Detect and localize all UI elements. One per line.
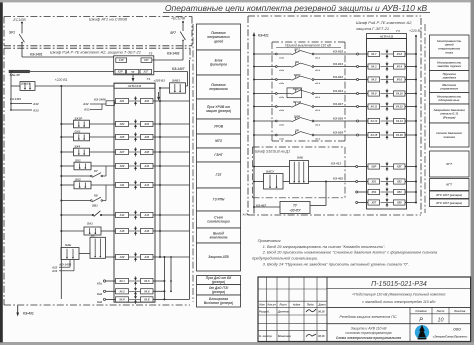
svg-text:А08: А08: [143, 150, 149, 154]
title block document number П-15015-021-Р34: [327, 281, 471, 288]
svg-text:SВ1: SВ1: [92, 203, 98, 207]
svg-text:Изм: Изм: [259, 303, 264, 307]
title block drawing name: [336, 326, 401, 340]
svg-text:КЭ-912: КЭ-912: [333, 75, 343, 79]
svg-text:А05: А05: [119, 135, 125, 139]
terminal circle Кнб: [97, 290, 116, 296]
wire bus to GХ1: [60, 136, 73, 138]
terminal X2 right box: [140, 69, 152, 74]
right strip lower terminal box Х52: [394, 179, 406, 184]
svg-text:Листов: Листов: [453, 309, 465, 313]
svg-text:Привод выключателя 110 кВ: Привод выключателя 110 кВ: [285, 43, 332, 47]
right strip contact Х4.7: [381, 49, 394, 58]
right strip terminal Х4.12: [394, 104, 406, 109]
svg-text:Х58: Х58: [396, 201, 402, 205]
svg-text:+ЕС1/ЛВ: +ЕС1/ЛВ: [171, 17, 186, 21]
svg-text:Лист: Лист: [278, 303, 287, 307]
svg-text:А11: А11: [119, 183, 125, 187]
relay SХ1Р: [74, 116, 90, 127]
annotation cell Блок: [197, 50, 241, 75]
wire contact SF1 to terminal: [314, 49, 368, 55]
right strip contact Х4.13: [381, 116, 394, 125]
svg-text:А32: А32: [32, 102, 39, 106]
right strip terminal Х4.9: [368, 91, 380, 96]
svg-text:А33: А33: [51, 269, 58, 273]
annotation cell Съем: [197, 211, 241, 228]
svg-text:Х51: Х51: [370, 180, 376, 184]
right strip terminal Х4.13: [368, 118, 380, 123]
drive contact SК: [275, 60, 320, 72]
svg-text:Х4.7: Х4.7: [370, 52, 377, 56]
svg-text:А07: А07: [119, 150, 125, 154]
title block left grid: [258, 277, 327, 342]
cable designation КЭ-401 exit: [16, 306, 34, 317]
svg-text:№док: №док: [293, 303, 301, 307]
svg-text:защит (резерв): защит (резерв): [206, 109, 231, 113]
svg-text:Х1Г: Х1Г: [143, 58, 149, 62]
right strip terminal Х4.10: [394, 91, 406, 96]
annotation cell right КГТ: [430, 151, 470, 177]
svg-text:SХ4: SХ4: [75, 144, 81, 148]
annotation cell ГЗНТ: [197, 148, 241, 162]
svg-text:Защита и АУВ 110 кВ: Защита и АУВ 110 кВ: [351, 326, 388, 330]
node -ЕС1/ЛВ left: [12, 18, 26, 24]
svg-text:А1ТН-011: А1ТН-011: [127, 84, 142, 88]
vertical line at cabinet right: [189, 60, 191, 299]
svg-text:Х4.6: Х4.6: [143, 290, 150, 294]
svg-text:Х4.2: Х4.2: [118, 290, 125, 294]
junction +220V left bus: [60, 85, 62, 87]
strip row terminal А03: [116, 121, 129, 126]
svg-text:МТЗ: МТЗ: [215, 139, 222, 143]
wire right strip lower row Х53: [405, 191, 417, 193]
annotation cell Вывод: [197, 228, 241, 243]
strip row terminal А13: [116, 212, 129, 217]
wire filter left drop: [11, 72, 13, 111]
svg-text:Защита АТВ: Защита АТВ: [208, 255, 229, 259]
dash-dot separator before right annotation column: [424, 24, 426, 213]
right strip lower terminal box Х54: [394, 189, 406, 194]
terminal strip right body: [367, 39, 407, 210]
wire SХ4 to strip: [90, 151, 116, 153]
right strip terminal Х4.15: [368, 132, 380, 137]
svg-text:Р: Р: [419, 317, 423, 323]
strip row terminal А11: [116, 182, 129, 187]
svg-text:Н. контр.: Н. контр.: [259, 334, 273, 338]
cabinet frame Шкаф РзА Р-7Е комплект А2 защита Т-ЗЕТ-21: [4, 48, 190, 305]
wire contact SQР to terminal: [314, 116, 368, 122]
svg-text:Х54: Х54: [396, 190, 402, 194]
wire contact SP to terminal: [314, 130, 368, 136]
right strip lower terminal Х5Р: [356, 166, 368, 168]
terminal strip А1ТН-011 body: [114, 83, 155, 302]
svg-text:Х4.5: Х4.5: [370, 78, 377, 82]
scan edge right bar: [471, 0, 474, 345]
svg-text:тока: тока: [445, 50, 453, 54]
annotation cell Пуск УРОВ от: [197, 99, 241, 119]
strip row contact at А29: [129, 252, 142, 261]
svg-text:Разраб.: Разраб.: [259, 310, 270, 314]
strip row terminal А29: [116, 254, 129, 259]
terminal X1 left box: [116, 58, 127, 63]
arrow feed down to terminal strip: [132, 74, 135, 82]
strip row terminal Х4.Р: [116, 297, 129, 302]
svg-text:цепей: цепей: [214, 39, 223, 43]
right strip terminal Х4.6: [394, 77, 406, 82]
svg-text:Шкаф РзА Р-7Е комплект А2,: Шкаф РзА Р-7Е комплект А2,: [356, 20, 412, 25]
svg-text:элегаза: элегаза: [443, 135, 455, 139]
wire bus to contact SК: [253, 66, 275, 68]
cabinet frame Шкаф АТ1 на С300В: [4, 17, 192, 46]
contact block БК: [90, 233, 106, 258]
svg-text:Кол.уч: Кол.уч: [268, 303, 277, 307]
switch SВ1: [60, 203, 115, 216]
svg-text:Г1: Г1: [147, 77, 151, 81]
svg-text:КЭ-913: КЭ-913: [333, 62, 343, 66]
wire SХ2 to strip: [91, 184, 116, 186]
svg-text:х1Lб: х1Lб: [314, 123, 321, 126]
wire А33 joining: [83, 104, 102, 112]
svg-text:управление: управление: [439, 87, 458, 91]
terminal X1 right box: [141, 58, 152, 63]
svg-text:КЭ-915: КЭ-915: [333, 49, 343, 53]
vertical bus right of strip: [159, 88, 161, 257]
strip row contact at А03: [129, 119, 142, 128]
svg-text:(резерв): (резерв): [212, 290, 225, 294]
right strip lower terminal box Х5Р: [368, 164, 380, 169]
svg-text:пр: пр: [131, 71, 135, 74]
svg-text:SА1: SА1: [87, 221, 93, 225]
company logo ЭнергоСвязьПроект: [415, 325, 468, 340]
svg-text:А13: А13: [119, 213, 125, 217]
svg-text:КЭ-914: КЭ-914: [333, 89, 343, 93]
svg-text:А02: А02: [143, 99, 149, 103]
svg-text:КЭ-401: КЭ-401: [23, 312, 34, 316]
annotation cell right Пружина: [430, 71, 470, 82]
cabinet frame Шкаф S1ESLВ на Д1: [253, 147, 346, 198]
right strip terminal Х4.3: [368, 64, 380, 69]
wire X101 row: [11, 85, 115, 87]
svg-text:ГЗНТ: ГЗНТ: [214, 153, 223, 157]
wire row А09 to bus: [153, 165, 190, 167]
svg-text:Демчев: Демчев: [277, 310, 289, 314]
title block row Н.контр: [259, 334, 325, 338]
right strip lower contact Х5Р: [381, 162, 394, 171]
annotation cell Блокировка: [197, 295, 241, 307]
svg-text:SF7: SF7: [170, 31, 176, 35]
relay SАСУ: [264, 170, 284, 189]
svg-text:GХ1: GХ1: [75, 129, 81, 133]
relay SХ2: [74, 177, 91, 188]
right strip terminal Х4.5: [368, 77, 380, 82]
wire bus to SХ2: [60, 184, 74, 186]
strip row terminal А04: [141, 121, 154, 126]
svg-text:«ЭнергоСвязьПроект»: «ЭнергоСвязьПроект»: [433, 334, 468, 338]
wire bus to SХ4: [60, 151, 73, 153]
strip row contact at А13: [129, 210, 142, 219]
wire stub А32 lower: [51, 260, 70, 270]
wire contact SF1Д to terminal: [314, 102, 368, 108]
drive contact SP: [275, 128, 320, 140]
strip row contact at А05: [129, 132, 142, 141]
svg-text:х1ба: х1ба: [278, 82, 285, 85]
strip row terminal А02: [141, 98, 154, 103]
svg-text:Вкл/откл (резерв): Вкл/откл (резерв): [204, 301, 233, 305]
svg-text:КГС НКТ (резерв): КГС НКТ (резерв): [436, 201, 462, 205]
strip row contact at А01: [129, 96, 142, 105]
svg-text:обогрева вык.: обогрева вык.: [438, 98, 460, 102]
right strip terminal Х4.7: [368, 51, 380, 56]
svg-text:Шкаф АТ1 на С300В: Шкаф АТ1 на С300В: [89, 17, 127, 22]
svg-text:БК: БК: [91, 233, 95, 237]
svg-text:комплекта: комплекта: [210, 236, 228, 240]
drive contact SQП: [275, 73, 320, 85]
drive contact SF1: [275, 47, 320, 59]
svg-text:Х4.9: Х4.9: [370, 92, 377, 96]
svg-text:П-15015-021-Р34: П-15015-021-Р34: [371, 281, 427, 288]
svg-text:А30: А30: [143, 255, 149, 259]
terminal X2 left box: [115, 69, 125, 74]
annotation cell ГЗ РПН: [197, 188, 241, 211]
svg-text:силового трансформатора: силового трансформатора: [345, 331, 391, 335]
svg-text:SХ2: SХ2: [75, 177, 81, 181]
svg-text:«Подстанция 110 кВ (Ивантеевка: «Подстанция 110 кВ (Ивантеевка) Угольный…: [352, 293, 446, 297]
right strip lower contact Х51: [381, 177, 394, 186]
svg-text:А14: А14: [143, 213, 149, 217]
svg-text:Кнб: Кнб: [97, 292, 102, 296]
strip row terminal Х4.1: [116, 278, 129, 283]
svg-text:х1Lб: х1Lб: [314, 82, 321, 85]
annotation cell right Неисправность: [430, 58, 470, 71]
breaker SF1: [9, 31, 24, 44]
svg-text:х1Lб: х1Lб: [314, 56, 321, 59]
strip row contact at Х4.1: [129, 276, 142, 285]
wire right strip row Х4.7: [405, 53, 417, 55]
annotation cell ГЗТ: [197, 162, 241, 188]
annotation cell Питание: [197, 24, 241, 50]
svg-text:Х4.16: Х4.16: [395, 133, 403, 137]
svg-text:2. Вход 20 присвоить наименова: 2. Вход 20 присвоить наименование "Сниже…: [262, 250, 438, 255]
strip row terminal А07: [116, 149, 129, 154]
svg-text:-ЕС1/ЛВ: -ЕС1/ЛВ: [12, 18, 26, 22]
svg-text:А06: А06: [143, 135, 149, 139]
left +220V bus vertical: [60, 86, 62, 299]
annotation cell УРОВ: [197, 119, 241, 134]
svg-text:х1ба: х1ба: [278, 69, 285, 72]
svg-text:КЭ-917: КЭ-917: [333, 102, 343, 106]
relay SХ1: [74, 158, 91, 169]
svg-text:терминала: терминала: [209, 87, 227, 91]
notes Примечания: [252, 238, 438, 266]
contact К7: [60, 166, 106, 177]
svg-text:А29: А29: [119, 255, 125, 259]
wire КЭ-413: [309, 162, 356, 167]
svg-text:КЭ-1402: КЭ-1402: [167, 52, 180, 56]
annotation cell right КГС НКТ (резерв): [430, 199, 470, 207]
drive contact SQС1: [275, 87, 320, 99]
strip row terminal Х4.6: [141, 278, 154, 283]
wire SХ1 to strip: [91, 165, 116, 167]
svg-text:06.16: 06.16: [318, 310, 325, 314]
svg-text:А04: А04: [143, 122, 149, 126]
svg-text:А1ТН-011: А1ТН-011: [379, 34, 394, 38]
wire right strip lower row Х5Р: [405, 166, 417, 168]
wire SF7 down to terminal X1 right: [152, 40, 183, 60]
svg-text:Релейная защита элементов ПС.: Релейная защита элементов ПС.: [340, 315, 398, 319]
wire bus to contact SQП: [253, 79, 275, 81]
svg-text:Х2Р: Х2Р: [117, 70, 123, 74]
wire row Х4.Р to bus: [153, 298, 164, 300]
svg-text:К7: К7: [94, 169, 98, 173]
right strip contact Х4.5: [381, 75, 394, 84]
relay SАБ right: [290, 155, 309, 183]
right strip lower terminal box Х5Г: [394, 164, 406, 169]
breaker SF7: [170, 31, 185, 41]
svg-text:SF1: SF1: [294, 47, 300, 51]
annotation cell right Неисправность: [430, 93, 470, 105]
wire bus to contact SF1: [253, 53, 275, 55]
wire right strip row Х4.15: [405, 134, 417, 136]
right strip terminal Х4.11: [368, 104, 380, 109]
wire from -ЕС1/ЛВ to SF1: [21, 23, 23, 34]
terminal circle К7а: [97, 280, 116, 286]
svg-text:А01: А01: [119, 99, 125, 103]
annotation cell Питание: [197, 75, 241, 99]
strip row terminal А12: [141, 182, 154, 187]
switch SА1: [60, 221, 115, 235]
svg-text:Х5Г: Х5Г: [396, 165, 402, 169]
svg-text:УРОВ: УРОВ: [214, 125, 224, 129]
svg-text:Х52: Х52: [396, 180, 402, 184]
wire filter to X2 terminals: [30, 71, 114, 73]
strip row terminal А01: [116, 98, 129, 103]
svg-text:Х4.13: Х4.13: [369, 119, 377, 123]
filter device box Г2: [114, 52, 154, 75]
svg-text:Схема электрическая принципиал: Схема электрическая принципиальная: [336, 336, 401, 340]
strip row terminal А15: [116, 228, 129, 233]
surge filter block SAB XP hatched: [9, 70, 30, 77]
wire GХ1 to strip: [90, 136, 116, 138]
svg-text:КЭ-421: КЭ-421: [258, 34, 269, 38]
svg-text:К8: К8: [94, 194, 98, 198]
svg-text:К7а: К7а: [97, 282, 102, 286]
svg-text:Х4.Р: Х4.Р: [118, 298, 125, 302]
wire row А07 to bus: [153, 151, 190, 153]
right strip terminal Х4.8: [394, 51, 406, 56]
svg-text:ГЗ РПН: ГЗ РПН: [213, 198, 225, 202]
scan edge bottom strip: [0, 342, 474, 345]
svg-text:х1ба: х1ба: [278, 137, 285, 140]
relay SХ4: [74, 144, 90, 155]
svg-text:Лист: Лист: [436, 309, 445, 313]
auxiliary relay SX101: [20, 81, 35, 90]
svg-text:КЭ-402: КЭ-402: [333, 176, 343, 180]
svg-text:Х4.14: Х4.14: [395, 119, 403, 123]
right strip terminal Х4.4: [394, 64, 406, 69]
title block frame: [258, 277, 471, 342]
svg-text:Х4.11: Х4.11: [369, 105, 377, 109]
wire contact SQС1 to terminal: [314, 89, 368, 95]
svg-text:А15: А15: [119, 229, 125, 233]
svg-text:Х2Г: Х2Г: [142, 70, 148, 74]
wire row А11 to bus: [153, 184, 190, 186]
svg-text:А09: А09: [119, 164, 125, 168]
strip row terminal А05: [116, 134, 129, 139]
strip row terminal А14: [141, 212, 154, 217]
right strip lower contact Х57: [381, 198, 394, 207]
terminal X2 middle box: [127, 69, 139, 74]
svg-text:А10: А10: [143, 164, 149, 168]
strip row terminal А08: [141, 149, 154, 154]
strip row contact at А11: [129, 180, 142, 189]
drive contact SQР: [275, 114, 320, 126]
svg-text:+220 В1: +220 В1: [55, 78, 68, 82]
svg-text:Шкаф S1ЕSLВ на Д1: Шкаф S1ЕSLВ на Д1: [255, 150, 290, 154]
svg-text:06.16: 06.16: [318, 334, 325, 338]
wire right strip row Х4.5: [405, 79, 417, 81]
annotation cell right КГС НКТ (резерв): [430, 191, 470, 199]
annotation cell right Низкое давление: [430, 123, 470, 147]
annotation cell Пуск ДгО от БК: [197, 276, 241, 285]
drawing title: [163, 3, 430, 13]
annotation cell МТЗ: [197, 134, 241, 148]
strip row terminal А30: [141, 254, 154, 259]
right strip lower terminal box Х58: [394, 200, 406, 205]
svg-text:SF1: SF1: [9, 31, 15, 35]
right strip contact Х4.15: [381, 130, 394, 139]
annotation cell right Неисправность: [430, 35, 470, 58]
strip row terminal Х4.Е: [141, 297, 154, 302]
wire right strip row Х4.11: [405, 106, 417, 108]
svg-text:Х53: Х53: [370, 190, 376, 194]
svg-text:А12: А12: [143, 183, 149, 187]
svg-text:10: 10: [438, 317, 444, 323]
svg-text:А33: А33: [83, 108, 90, 112]
svg-text:Х4.6: Х4.6: [143, 279, 150, 283]
terminal strip А1ТН-011 header: [114, 77, 155, 88]
svg-text:КЭ-1403: КЭ-1403: [10, 97, 21, 101]
wire row А13 to bus: [153, 214, 190, 216]
svg-text:х1Lб: х1Lб: [314, 69, 321, 72]
svg-text:Примечания: Примечания: [258, 238, 282, 243]
svg-text:КЭ-1407: КЭ-1407: [172, 67, 185, 71]
svg-text:Х4.10: Х4.10: [395, 92, 403, 96]
vertical collector bus lower: [163, 257, 165, 299]
svg-text:Х4.6: Х4.6: [396, 78, 403, 82]
wire bus to SАСУ: [253, 181, 264, 183]
right strip lower terminal Х53: [356, 191, 368, 193]
strip row contact at А15: [129, 226, 142, 235]
annotation cell right Аварийное давление: [430, 104, 470, 123]
strip row contact at Х4.2: [129, 287, 142, 296]
svg-text:+220 В1: +220 В1: [409, 29, 422, 33]
annotation cell right КГТ: [430, 179, 470, 191]
right strip contact Х4.9: [381, 89, 394, 98]
svg-text:х1Lб: х1Lб: [314, 137, 321, 140]
wire right strip lower row Х57: [405, 202, 417, 204]
svg-text:А П: А П: [242, 213, 249, 217]
right strip terminal Х4.16: [394, 132, 406, 137]
wire bottom row to annotation: [164, 298, 189, 300]
wire stub А33 lower: [51, 260, 74, 273]
wire А32 into block with device ПВ: [82, 98, 116, 107]
relay SAB1 box: [170, 79, 186, 94]
svg-text:Х4.15: Х4.15: [369, 133, 377, 137]
wire from +ЕС1/ЛВ to SF7: [182, 22, 184, 31]
node +ЕС1/ЛВ right: [171, 17, 186, 24]
svg-text:SАБ: SАБ: [65, 243, 71, 247]
wire bus to contact SP: [253, 134, 275, 136]
